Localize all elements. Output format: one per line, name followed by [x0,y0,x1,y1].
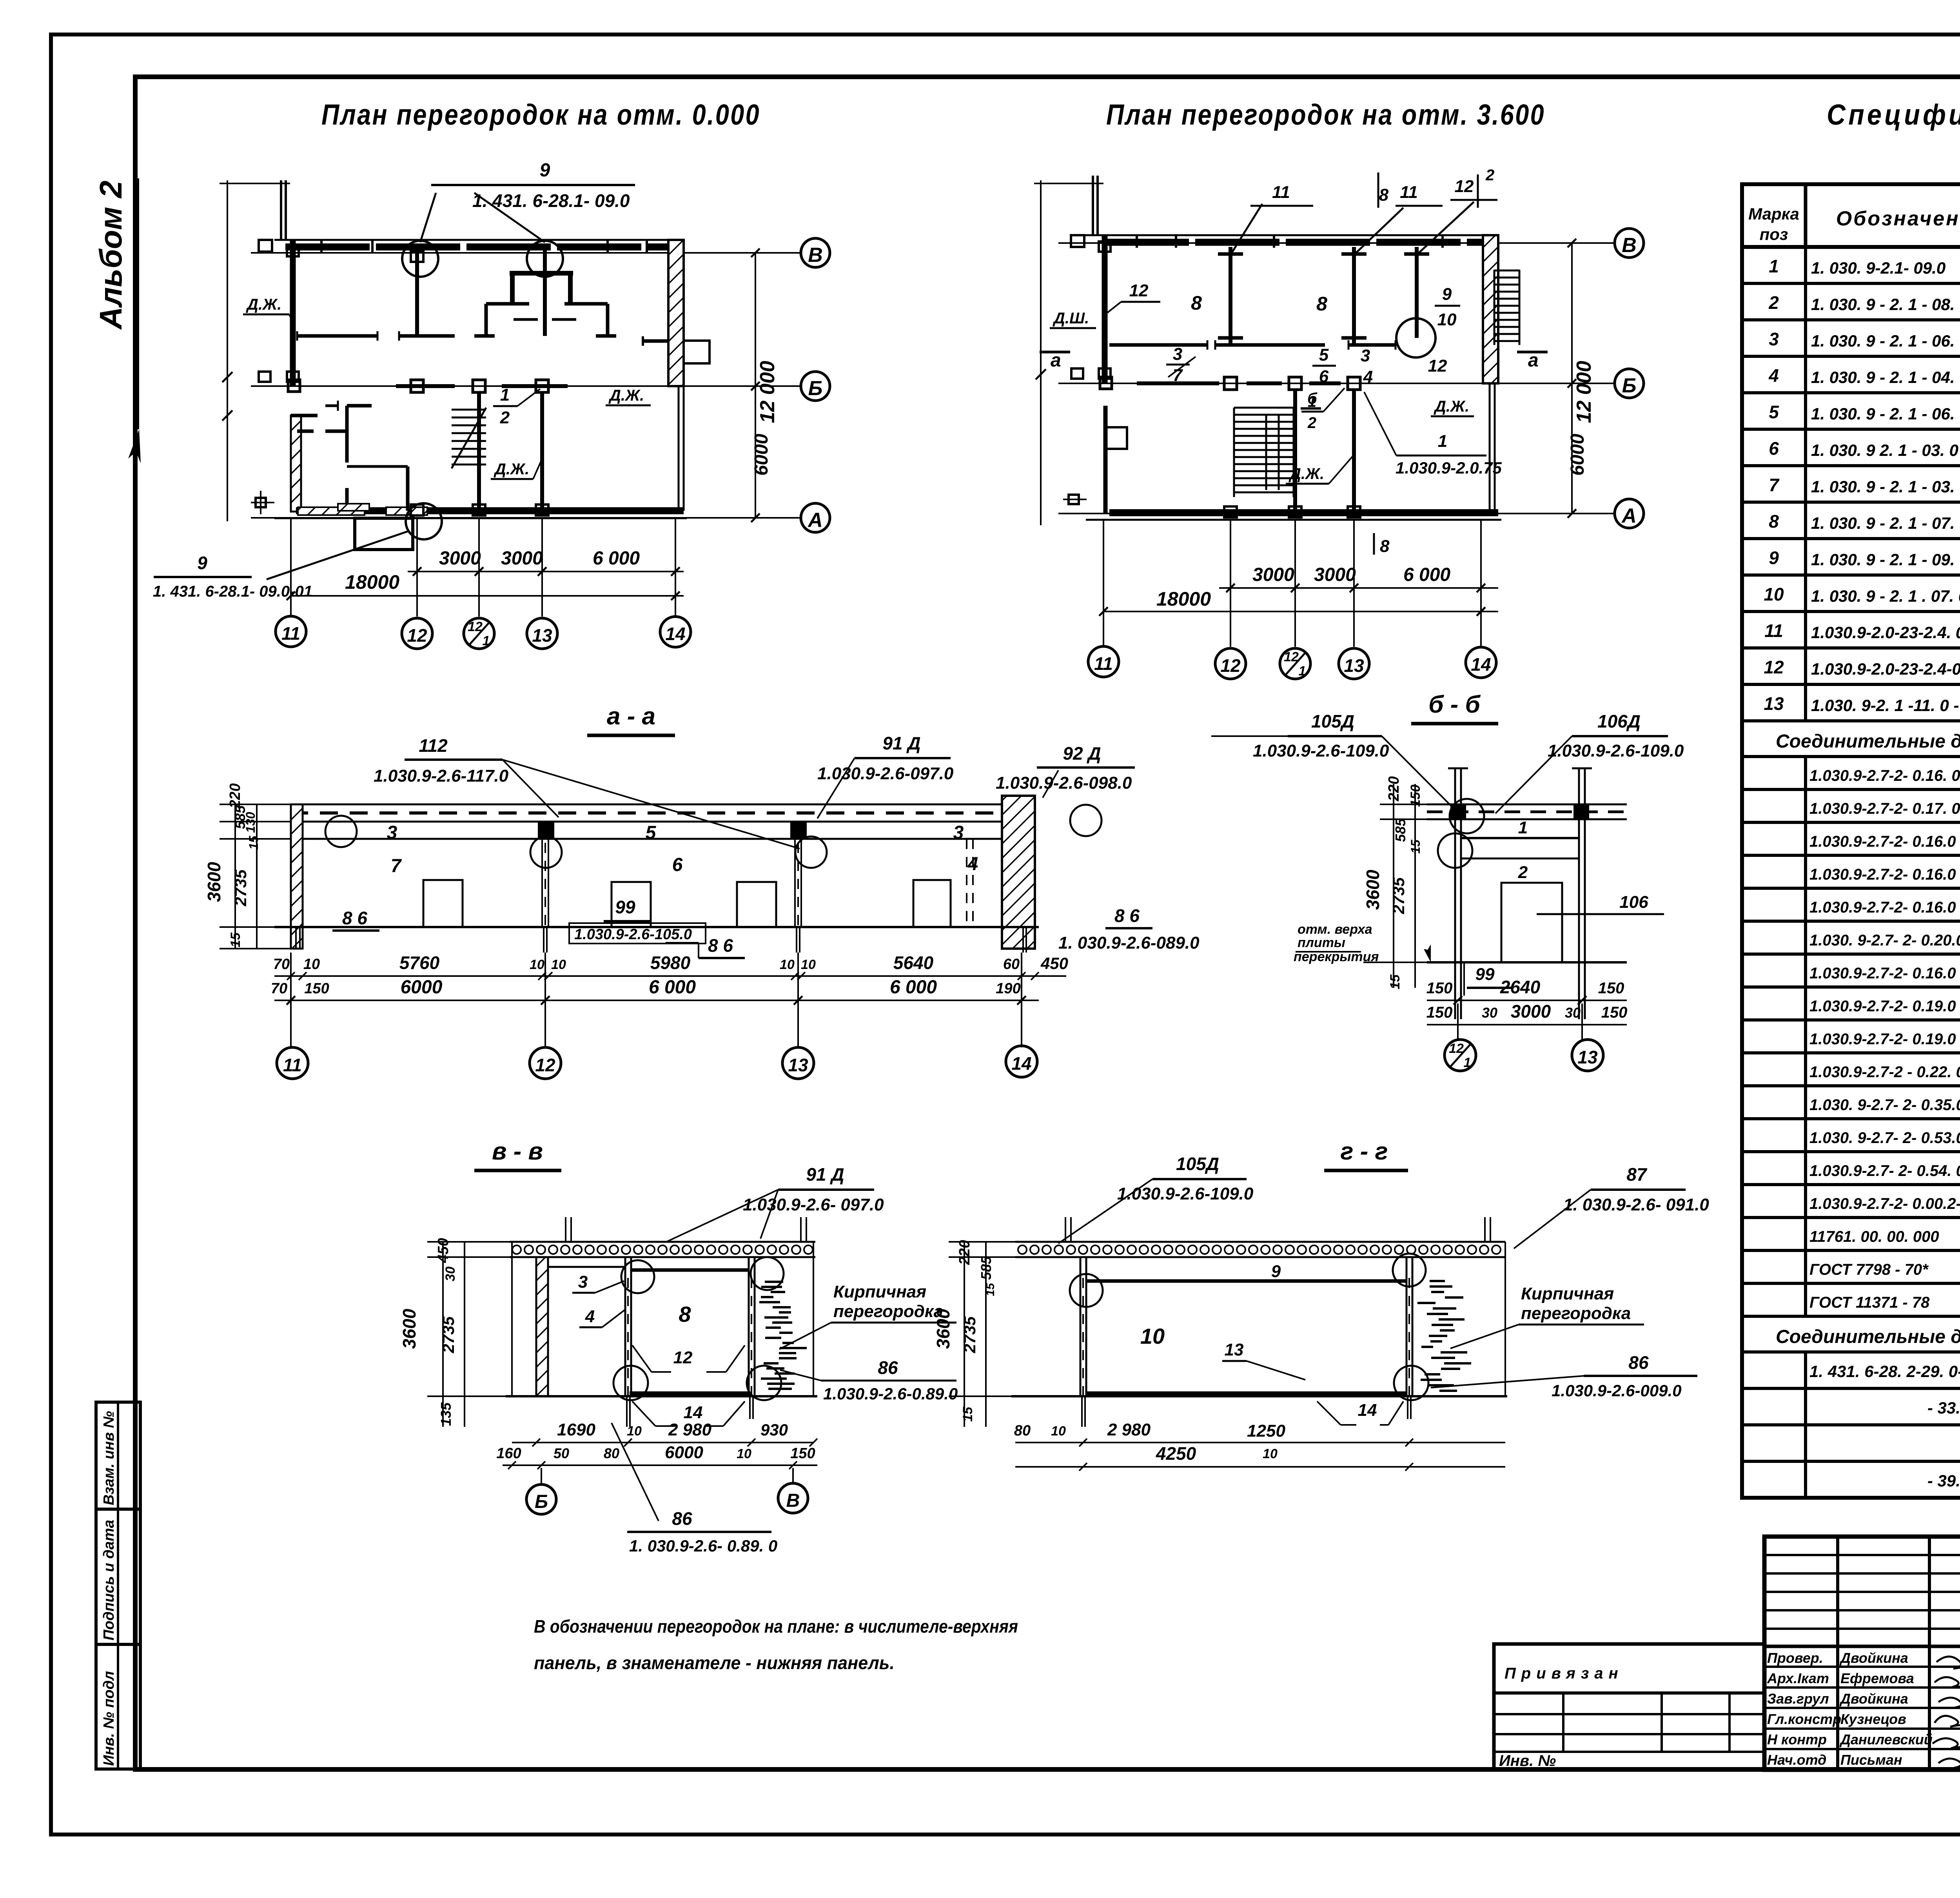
svg-text:6000: 6000 [665,1443,703,1462]
g-g posts above slab [1065,1217,1066,1242]
svg-text:3: 3 [1361,346,1370,365]
b-b floor [1427,961,1627,964]
svg-text:ГОСТ 11371 - 78: ГОСТ 11371 - 78 [1809,1294,1930,1311]
svg-text:30: 30 [1482,1005,1497,1021]
svg-text:130: 130 [243,812,258,833]
a-a bottom dims row2 [274,1000,1039,1001]
g-g stubs below floor [1081,1396,1083,1427]
plan2 stair strip right [1494,270,1519,345]
svg-text:2735: 2735 [439,1316,457,1354]
plan2 bottom dim row1 [1219,587,1498,589]
plan1 axis circle 14 [660,617,691,647]
svg-text:Д.Ж.: Д.Ж. [1434,398,1469,415]
plan1 bottom wall [296,507,684,514]
svg-text:Двойкина: Двойкина [1839,1691,1908,1707]
svg-text:1.030.9-2.7-2- 0.19.0 - 02: 1.030.9-2.7-2- 0.19.0 - 02 [1809,998,1960,1015]
plan1 axis circle 13 [527,618,557,649]
svg-text:150: 150 [1426,1004,1453,1021]
svg-text:3600: 3600 [399,1308,419,1349]
title block outer [1764,1537,1960,1770]
svg-text:15: 15 [984,1283,997,1296]
svg-text:3: 3 [387,822,397,843]
svg-text:99: 99 [1475,965,1495,984]
svg-text:8 6: 8 6 [1114,905,1140,926]
v-v bottom dims row2 [503,1464,817,1466]
svg-text:150: 150 [790,1445,815,1462]
title block [1494,1537,1960,1771]
plan1 bottom dim row1 [408,571,684,572]
svg-text:6 000: 6 000 [890,977,937,998]
svg-text:220: 220 [956,1240,973,1265]
svg-text:5: 5 [646,822,657,843]
svg-text:- 33. 0 - 01: - 33. 0 - 01 [1927,1399,1960,1417]
svg-text:панель, в знаменателе - нижн: панель, в знаменателе - нижняя панель. [534,1653,895,1673]
a-a beam details [538,822,554,840]
svg-text:8 6: 8 6 [342,908,367,928]
svg-text:1. 030.9-2.6-089.0: 1. 030.9-2.6-089.0 [1058,933,1200,953]
svg-text:3000: 3000 [1314,564,1356,585]
plan1 extra walls bottom-left [297,430,314,433]
svg-text:б: б [1307,390,1318,407]
svg-text:Ефремова: Ефремова [1840,1670,1914,1686]
svg-text:3: 3 [1769,329,1779,349]
a-a floor [274,926,1039,928]
svg-text:150: 150 [1426,980,1453,997]
plan1 axis line B [251,385,800,387]
svg-text:87: 87 [1626,1164,1648,1185]
v-v bottom dims row1 [512,1442,813,1443]
svg-text:Обозначение: Обозначение [1836,207,1960,230]
svg-text:91 Д: 91 Д [806,1164,844,1185]
a-a left dims [234,804,236,949]
svg-text:15: 15 [960,1406,975,1422]
plan1 chimney top-left [280,180,282,240]
svg-text:1.030.9-2.6-009.0: 1.030.9-2.6-009.0 [1552,1381,1682,1400]
svg-text:220: 220 [227,783,243,808]
plan1 axis circle 12 [402,618,432,649]
svg-text:1.030.9-2.0-23-2.4. 03 КМ: 1.030.9-2.0-23-2.4. 03 КМ [1811,623,1960,642]
svg-text:5980: 5980 [650,953,691,973]
svg-text:3000: 3000 [501,548,543,569]
svg-text:12 000: 12 000 [756,361,779,423]
svg-text:14: 14 [1471,654,1491,675]
svg-text:10: 10 [1263,1446,1278,1461]
svg-text:12: 12 [1428,356,1447,376]
a-a partition 13 [794,822,796,927]
svg-text:1.030.9-2.0.75: 1.030.9-2.0.75 [1396,459,1502,477]
title block signature rows [1764,1666,1960,1668]
b-b circle 13 [1572,1040,1603,1071]
svg-text:15: 15 [1408,839,1423,854]
svg-text:Письман: Письман [1840,1752,1902,1768]
svg-text:1.030. 9-2.7- 2- 0.20.0- 01: 1.030. 9-2.7- 2- 0.20.0- 01 [1809,932,1960,949]
g-g right outer line [1504,1242,1506,1396]
svg-text:12: 12 [673,1348,693,1367]
svg-text:5760: 5760 [399,953,440,973]
svg-text:1.030.9-2.6-097.0: 1.030.9-2.6-097.0 [817,764,954,783]
svg-text:135: 135 [438,1402,454,1426]
plan1 right wall lower [678,386,680,511]
svg-text:7: 7 [391,856,402,876]
plan1 axis line V [251,252,800,254]
plan2 bottom wall [1109,509,1498,516]
svg-text:1: 1 [1438,432,1447,451]
svg-text:2640: 2640 [1500,977,1541,997]
v-v detail circles top [621,1260,654,1293]
svg-text:1.030.9-2.7-2 - 0.22. 0: 1.030.9-2.7-2 - 0.22. 0 [1809,1063,1960,1081]
plan2 right wall hatched [1483,235,1498,383]
b-b label 106 [1537,913,1664,915]
svg-text:12: 12 [1455,177,1474,196]
svg-text:105Д: 105Д [1311,711,1354,731]
plan1 left dim chain [227,180,228,521]
svg-text:Д.Ж.: Д.Ж. [608,387,644,404]
plan1 axis circle 12/1 [464,618,494,649]
svg-text:1.030. 9-2.7- 2- 0.53.0- 01: 1.030. 9-2.7- 2- 0.53.0- 01 [1809,1129,1960,1147]
title block left extension [1494,1644,1764,1770]
plan1 room cluster [510,271,573,276]
svg-text:150: 150 [304,980,329,997]
a-a circle 11 [277,1047,308,1079]
svg-text:б - б: б - б [1428,691,1481,718]
plan1 stair [452,408,486,468]
svg-text:Привязан: Привязан [1504,1665,1624,1682]
svg-text:106: 106 [1619,893,1648,912]
plan2 group [1034,167,1644,679]
svg-text:6000: 6000 [401,977,443,998]
svg-text:1. 030. 9 - 2. 1 - 06. 0: 1. 030. 9 - 2. 1 - 06. 0 [1811,405,1960,423]
svg-text:150: 150 [1601,1004,1628,1021]
svg-text:1.030.9-2.6-105.0: 1.030.9-2.6-105.0 [574,926,692,943]
plan1 axis circle B [801,372,830,401]
svg-text:поз: поз [1760,225,1788,243]
svg-text:1. 030. 9 - 2. 1 - 08. 0: 1. 030. 9 - 2. 1 - 08. 0 [1811,295,1960,314]
svg-text:1. 030. 9 - 2. 1 - 09. 0: 1. 030. 9 - 2. 1 - 09. 0 [1811,550,1960,569]
svg-text:А: А [1621,504,1637,527]
plan1 partition x12/1 lower [477,392,481,511]
svg-text:плиты: плиты [1298,935,1345,950]
svg-text:1.030.9-2.7-2- 0.16.0 - 07: 1.030.9-2.7-2- 0.16.0 - 07 [1809,965,1960,982]
svg-text:1.030.9-2.7-2- 0.16. 0: 1.030.9-2.7-2- 0.16. 0 [1809,767,1960,784]
svg-text:Соединительные детали к СБ: Соединительные детали к СБОРНЫМ перегоро… [1776,731,1960,752]
svg-text:1690: 1690 [557,1420,595,1439]
svg-text:8: 8 [679,1302,691,1326]
plan1 detail circle top 12 [402,241,438,277]
svg-text:9: 9 [1442,285,1452,304]
svg-text:Взам. инв №: Взам. инв № [101,1411,117,1505]
g-g floor [1011,1395,1507,1397]
plan1 right dim chain [755,253,756,518]
svg-text:2: 2 [1307,414,1316,432]
svg-text:отм. верха: отм. верха [1298,922,1372,937]
svg-text:1. 030.9-2.6- 091.0: 1. 030.9-2.6- 091.0 [1563,1195,1709,1214]
a-a wall stubs below floor [295,927,297,949]
svg-text:2 980: 2 980 [1107,1420,1151,1439]
svg-text:13: 13 [1764,693,1784,714]
plan1 axis circle A [801,503,830,532]
plan1 right bump [684,341,710,363]
svg-text:1.030.9-2.6-117.0: 1.030.9-2.6-117.0 [374,766,509,786]
svg-text:105Д: 105Д [1176,1154,1219,1174]
svg-text:1.030.9-2.7-2- 0.16.0 - 02: 1.030.9-2.7-2- 0.16.0 - 02 [1809,833,1960,850]
plan2 axis circle 11 [1088,646,1119,677]
plan1 partition x13 lower [540,392,544,511]
svg-text:План перегородок на отм. 3.: План перегородок на отм. 3.600 [1106,98,1545,131]
svg-text:106Д: 106Д [1597,711,1641,731]
svg-text:10: 10 [1437,310,1457,329]
svg-text:1. 030. 9 - 2. 1 - 03. 0: 1. 030. 9 - 2. 1 - 03. 0 [1811,477,1960,496]
svg-text:Д.Ш.: Д.Ш. [1053,310,1089,327]
plan2 axis line A [1058,513,1614,514]
svg-text:1.030.9-2.7-2- 0.16.0 - 03: 1.030.9-2.7-2- 0.16.0 - 03 [1809,866,1960,883]
plan1 axis drop lines [290,518,292,617]
svg-text:Спецификация перегородок: Спецификация перегородок [1827,98,1960,131]
svg-text:6: 6 [672,855,683,875]
svg-text:8: 8 [1191,292,1202,314]
plan1 porch [355,518,413,550]
plan2 right wall lower [1489,383,1491,513]
svg-text:150: 150 [1408,785,1423,807]
svg-text:11: 11 [1272,183,1290,202]
plan1 leader bottom-left [267,531,408,579]
svg-text:86: 86 [1628,1352,1649,1373]
b-b bottom dims [1427,1000,1627,1001]
svg-text:перегородка: перегородка [833,1302,943,1321]
svg-text:8 6: 8 6 [708,935,733,956]
svg-text:14: 14 [665,624,685,644]
plan1 axis circle V [801,238,830,267]
svg-text:1. 030. 9 2. 1 - 03. 0: 1. 030. 9 2. 1 - 03. 0 [1811,441,1958,459]
b-b right column [1578,768,1580,1019]
svg-text:18000: 18000 [1156,588,1211,610]
plan2 partition x 3614 top [1415,247,1419,338]
svg-text:3: 3 [953,822,964,843]
plan1 right wall hatched [668,240,684,386]
plan1 left wall [290,240,296,386]
svg-text:3600: 3600 [1363,869,1383,910]
svg-text:11: 11 [281,623,300,644]
svg-text:8: 8 [1380,537,1390,556]
svg-text:1. 431. 6-28.1- 09.0: 1. 431. 6-28.1- 09.0 [472,191,630,211]
svg-text:В: В [786,1490,800,1511]
svg-text:30: 30 [443,1267,458,1281]
svg-text:Кузнецов: Кузнецов [1840,1711,1906,1727]
plan1 left small squares [259,372,270,382]
svg-text:6 000: 6 000 [649,977,696,998]
svg-text:Н контр: Н контр [1767,1731,1827,1747]
svg-text:11: 11 [1764,621,1783,641]
svg-text:92 Д: 92 Д [1063,743,1101,764]
plan2 top wall inner stubs [1136,235,1138,248]
plan2 partition x13 top [1352,247,1356,345]
plan1 bottom wall piers [298,507,365,515]
plan2 partition x12 top [1229,247,1232,345]
svg-text:15: 15 [247,835,261,850]
svg-text:13: 13 [1577,1047,1598,1067]
svg-text:1.030.9-2.6-109.0: 1.030.9-2.6-109.0 [1253,741,1389,760]
svg-text:8: 8 [1316,293,1327,315]
svg-text:160: 160 [496,1445,521,1462]
svg-text:1.030.9-2.7- 2- 0.54. 0- 01: 1.030.9-2.7- 2- 0.54. 0- 01 [1809,1162,1960,1179]
svg-text:Провер.: Провер. [1767,1650,1823,1666]
svg-text:1.030.9-2.0-23-2.4-03КМ: 1.030.9-2.0-23-2.4-03КМ [1811,660,1960,678]
svg-text:8: 8 [1769,511,1779,532]
svg-text:15: 15 [228,932,243,947]
plan2 partition x12/1 lower [1293,390,1297,513]
svg-text:1250: 1250 [1247,1421,1285,1441]
svg-text:80: 80 [604,1445,619,1461]
plan2 partition B [1137,381,1219,385]
svg-text:13: 13 [1344,655,1364,676]
svg-text:9: 9 [197,553,207,573]
plan2 right dim chain [1571,243,1573,514]
a-a partition 12 [541,822,543,927]
svg-text:450: 450 [1040,954,1068,973]
plan1 bottom dim row2 [291,595,684,597]
svg-text:г - г: г - г [1340,1138,1388,1165]
svg-text:9: 9 [540,160,550,181]
svg-text:10: 10 [551,957,566,972]
v-v door header [631,1268,749,1272]
plan1 partition y857 [297,334,377,338]
svg-text:3: 3 [1173,345,1182,364]
svg-text:112: 112 [419,735,448,756]
svg-text:Альбом 2: Альбом 2 [93,181,128,330]
svg-text:1: 1 [1299,664,1306,679]
v-v stubs below floor [626,1396,628,1427]
plan1 top wall inner stubs [320,240,323,253]
svg-text:86: 86 [672,1508,692,1529]
plan2 partition y880 [1109,343,1207,347]
plan2 axis circle A [1615,499,1644,528]
svg-text:10: 10 [303,956,320,973]
section v-v group [399,1138,958,1555]
svg-text:в - в: в - в [492,1138,543,1165]
b-b circle 12/1 [1445,1040,1476,1071]
section g-g group [933,1138,1709,1471]
svg-text:Б: Б [535,1492,548,1512]
svg-text:1. 030. 9 - 2. 1 - 06. 0: 1. 030. 9 - 2. 1 - 06. 0 [1811,332,1960,350]
svg-text:2: 2 [1485,167,1494,184]
b-b beam lines [1461,837,1579,839]
svg-text:12: 12 [535,1055,555,1075]
svg-text:12 000: 12 000 [1573,361,1595,423]
svg-text:10: 10 [1764,584,1784,604]
svg-text:1.030.9-2.7-2- 0.16.0 - 06: 1.030.9-2.7-2- 0.16.0 - 06 [1809,899,1960,916]
svg-text:2735: 2735 [231,869,250,907]
svg-text:5: 5 [1319,345,1329,365]
plan1 partition x13 top [543,247,547,336]
a-a slab band [290,804,1035,806]
svg-text:1: 1 [1464,1055,1471,1070]
g-g right door column [1406,1257,1408,1396]
svg-text:Соединительные детали к ки: Соединительные детали к кирпичным перего… [1776,1326,1960,1347]
v-v floor [506,1395,817,1397]
plan1 detail circle bottom [406,503,442,539]
a-a left wall [291,804,303,949]
plan1 partition x12 top [415,247,419,336]
svg-text:10: 10 [737,1446,751,1461]
svg-text:Кирпичная: Кирпичная [1521,1284,1614,1303]
svg-text:9: 9 [1271,1262,1281,1281]
b-b axis drops [1457,1003,1459,1040]
spec table [1742,184,1960,1498]
plan2 left wall [1102,235,1108,383]
svg-text:585: 585 [978,1256,994,1280]
svg-text:8: 8 [1379,185,1389,205]
svg-text:2: 2 [500,408,510,427]
svg-text:11761. 00. 00. 000: 11761. 00. 00. 000 [1809,1228,1939,1245]
plan2 axis circle 14 [1466,647,1496,678]
svg-text:Нач.отд: Нач.отд [1767,1752,1826,1768]
plan1 detail circle top 13 [527,241,563,277]
svg-text:86: 86 [878,1357,898,1378]
a-a detail circles [325,816,357,847]
b-b detail circles [1450,799,1484,833]
svg-text:14: 14 [1358,1401,1377,1420]
plan2 axis circle 12 [1215,648,1246,679]
v-v right outer line [813,1242,814,1396]
svg-text:2735: 2735 [1389,877,1408,915]
svg-text:14: 14 [1011,1053,1031,1074]
svg-text:1.030.9-2.6-098.0: 1.030.9-2.6-098.0 [996,773,1132,793]
svg-text:1. 431. 6-28. 2-29. 0- 02: 1. 431. 6-28. 2-29. 0- 02 [1809,1362,1960,1381]
svg-text:7: 7 [1769,475,1780,495]
a-a right wall [1002,796,1035,949]
g-g brick hatch [1417,1281,1471,1391]
svg-text:Марка: Марка [1748,205,1799,223]
plan2 left dim chain [1040,180,1042,525]
svg-text:11: 11 [1094,653,1113,674]
g-g left door column [1080,1257,1082,1396]
svg-text:2735: 2735 [960,1316,979,1354]
v-v axis drops [541,1468,542,1484]
g-g detail circles [1070,1274,1103,1307]
title block left grid [1764,1554,1960,1556]
svg-text:30: 30 [1565,1005,1581,1021]
svg-text:1.030.9-2.6-109.0: 1.030.9-2.6-109.0 [1117,1184,1254,1203]
svg-text:190: 190 [996,980,1020,997]
svg-text:11: 11 [283,1055,302,1075]
plan1 leader top 9 [420,193,436,242]
svg-text:220: 220 [1386,776,1402,801]
svg-text:1.030. 9-2.7- 2- 0.35.0- 03: 1.030. 9-2.7- 2- 0.35.0- 03 [1809,1096,1960,1114]
svg-text:585: 585 [1392,818,1408,842]
svg-text:ГОСТ 7798 - 70*: ГОСТ 7798 - 70* [1809,1261,1929,1278]
svg-text:1.030.9-2.7-2- 0.19.0 - 03: 1.030.9-2.7-2- 0.19.0 - 03 [1809,1031,1960,1048]
v-v left hatched wall [536,1257,548,1396]
svg-text:12: 12 [1129,281,1149,300]
svg-text:- 39. 0 - 01: - 39. 0 - 01 [1927,1472,1960,1490]
plan2 detail circle [1396,318,1436,357]
svg-text:10: 10 [530,957,544,972]
v-v circle B [526,1484,556,1514]
svg-text:91 Д: 91 Д [882,733,920,753]
svg-text:4: 4 [1768,365,1779,386]
svg-text:450: 450 [435,1238,452,1263]
svg-text:3000: 3000 [1252,564,1294,585]
section a-a group [204,703,1200,1079]
a-a circle 12 [530,1047,561,1079]
svg-text:7: 7 [1173,366,1183,385]
svg-text:12: 12 [407,625,427,646]
svg-text:70: 70 [271,980,287,997]
svg-text:1. 030. 9 - 2. 1 - 07. 0: 1. 030. 9 - 2. 1 - 07. 0 [1811,514,1960,532]
svg-text:4250: 4250 [1156,1443,1196,1464]
svg-text:а - а: а - а [607,703,655,730]
svg-text:60: 60 [1003,956,1020,973]
svg-text:6 000: 6 000 [1403,564,1450,585]
